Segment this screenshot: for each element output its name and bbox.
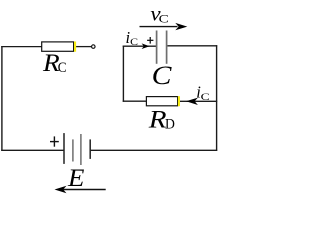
battery E plate 3 (long) [80, 134, 82, 165]
current arrow i_C into capacitor [142, 43, 150, 49]
plus sign at capacitor [147, 37, 153, 44]
arrow for v_C (pointing right) [140, 23, 188, 30]
svg-text:D: D [165, 117, 175, 133]
wire: bottom right (battery to right vertical) [90, 149, 217, 151]
resistor R_C [42, 42, 76, 52]
current arrow i_C into R_D (pointing left) [186, 98, 198, 105]
arrow for E (pointing left) [55, 186, 106, 193]
battery E plate 1 (long) [63, 133, 65, 164]
wire: R_D branch left [123, 100, 147, 102]
plus sign at battery [50, 136, 59, 146]
label R_D [148, 107, 175, 134]
wire: capacitor loop top (to left plate) [123, 45, 157, 47]
battery E plate 4 (short) [89, 139, 91, 159]
svg-text:C: C [152, 61, 173, 90]
wire: outer top-left horizontal to R_C [1, 46, 42, 48]
open terminal circle [92, 45, 96, 49]
wire: R_C to open terminal [76, 46, 91, 48]
svg-text:C: C [58, 60, 67, 76]
svg-text:C: C [201, 92, 211, 103]
wire: R_D to right vertical [180, 100, 217, 102]
label v_C [150, 5, 168, 26]
label i_C (right) [196, 82, 210, 103]
capacitor C right plate [166, 31, 168, 64]
svg-text:C: C [130, 37, 138, 48]
wire: outer left vertical [1, 46, 3, 151]
capacitor C left plate [156, 31, 158, 64]
svg-text:C: C [159, 12, 169, 26]
wire: capacitor loop left vertical [122, 46, 124, 102]
label i_C (top) [126, 28, 139, 48]
wire: right vertical [216, 45, 218, 151]
battery E plate 2 (short) [72, 139, 74, 161]
resistor R_D [146, 96, 180, 106]
svg-text:E: E [67, 165, 84, 192]
svg-text:R: R [148, 107, 167, 134]
wire: capacitor right plate to right vertical [168, 45, 218, 47]
label R_C [42, 50, 67, 77]
wire: bottom left (to battery) [1, 149, 63, 151]
